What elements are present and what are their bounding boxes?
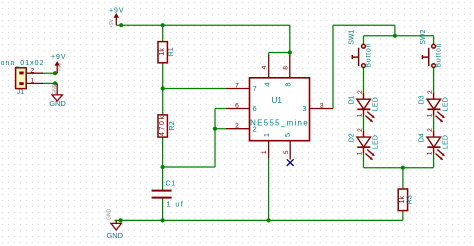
svg-text:D2: D2	[349, 133, 356, 142]
svg-text:+9V: +9V	[109, 8, 124, 15]
svg-text:2: 2	[31, 67, 35, 74]
svg-text:U1: U1	[271, 96, 282, 105]
svg-text:LED: LED	[443, 97, 450, 111]
svg-text:3: 3	[320, 102, 324, 109]
svg-text:5: 5	[283, 133, 292, 137]
svg-text:NE555_mine: NE555_mine	[250, 118, 308, 127]
svg-text:C1: C1	[166, 180, 176, 187]
svg-text:8: 8	[283, 66, 290, 70]
svg-text:4: 4	[261, 65, 268, 69]
svg-text:GND: GND	[49, 99, 66, 108]
svg-text:1: 1	[31, 78, 35, 85]
svg-text:2: 2	[253, 125, 257, 134]
svg-text:LED: LED	[443, 135, 450, 149]
svg-text:1k: 1k	[159, 48, 166, 56]
svg-text:6: 6	[253, 104, 257, 113]
svg-text:J1: J1	[17, 89, 25, 96]
svg-text:+9V: +9V	[109, 18, 115, 28]
svg-text:8: 8	[284, 82, 293, 86]
svg-text:Conn_01x02: Conn_01x02	[0, 60, 44, 67]
svg-text:Button: Button	[365, 44, 372, 68]
svg-text:2: 2	[235, 123, 239, 130]
svg-text:GND: GND	[107, 231, 124, 240]
svg-text:1 uf: 1 uf	[167, 202, 183, 209]
svg-text:2: 2	[427, 90, 434, 94]
svg-text:Button: Button	[435, 44, 442, 68]
svg-text:6: 6	[235, 102, 239, 109]
svg-text:GND: GND	[107, 208, 113, 220]
svg-text:3: 3	[302, 104, 306, 113]
svg-text:1: 1	[427, 113, 434, 117]
svg-text:7: 7	[253, 84, 257, 93]
svg-text:2: 2	[357, 90, 364, 94]
svg-text:R2: R2	[169, 121, 176, 130]
svg-text:1: 1	[356, 151, 363, 155]
svg-text:D4: D4	[419, 133, 426, 142]
svg-text:1k: 1k	[399, 196, 406, 204]
svg-text:2: 2	[427, 128, 434, 132]
svg-text:5: 5	[283, 150, 290, 154]
svg-text:R3: R3	[406, 195, 413, 204]
svg-text:LED: LED	[372, 97, 379, 111]
svg-text:R1: R1	[168, 47, 175, 56]
svg-text:1: 1	[427, 151, 434, 155]
svg-text:1: 1	[262, 133, 271, 137]
svg-text:LED: LED	[372, 135, 379, 149]
svg-text:+9V: +9V	[57, 62, 63, 72]
svg-text:+9V: +9V	[51, 54, 66, 61]
svg-text:470k: 470k	[159, 116, 166, 137]
svg-text:1: 1	[356, 113, 363, 117]
svg-text:2: 2	[357, 128, 364, 132]
svg-text:D1: D1	[349, 95, 356, 104]
svg-text:SW2: SW2	[420, 30, 427, 45]
svg-text:4: 4	[262, 82, 271, 86]
svg-text:7: 7	[235, 82, 239, 89]
svg-text:D3: D3	[419, 95, 426, 104]
svg-text:GND: GND	[52, 83, 58, 95]
svg-text:1: 1	[261, 150, 268, 154]
svg-text:SW1: SW1	[349, 30, 356, 45]
